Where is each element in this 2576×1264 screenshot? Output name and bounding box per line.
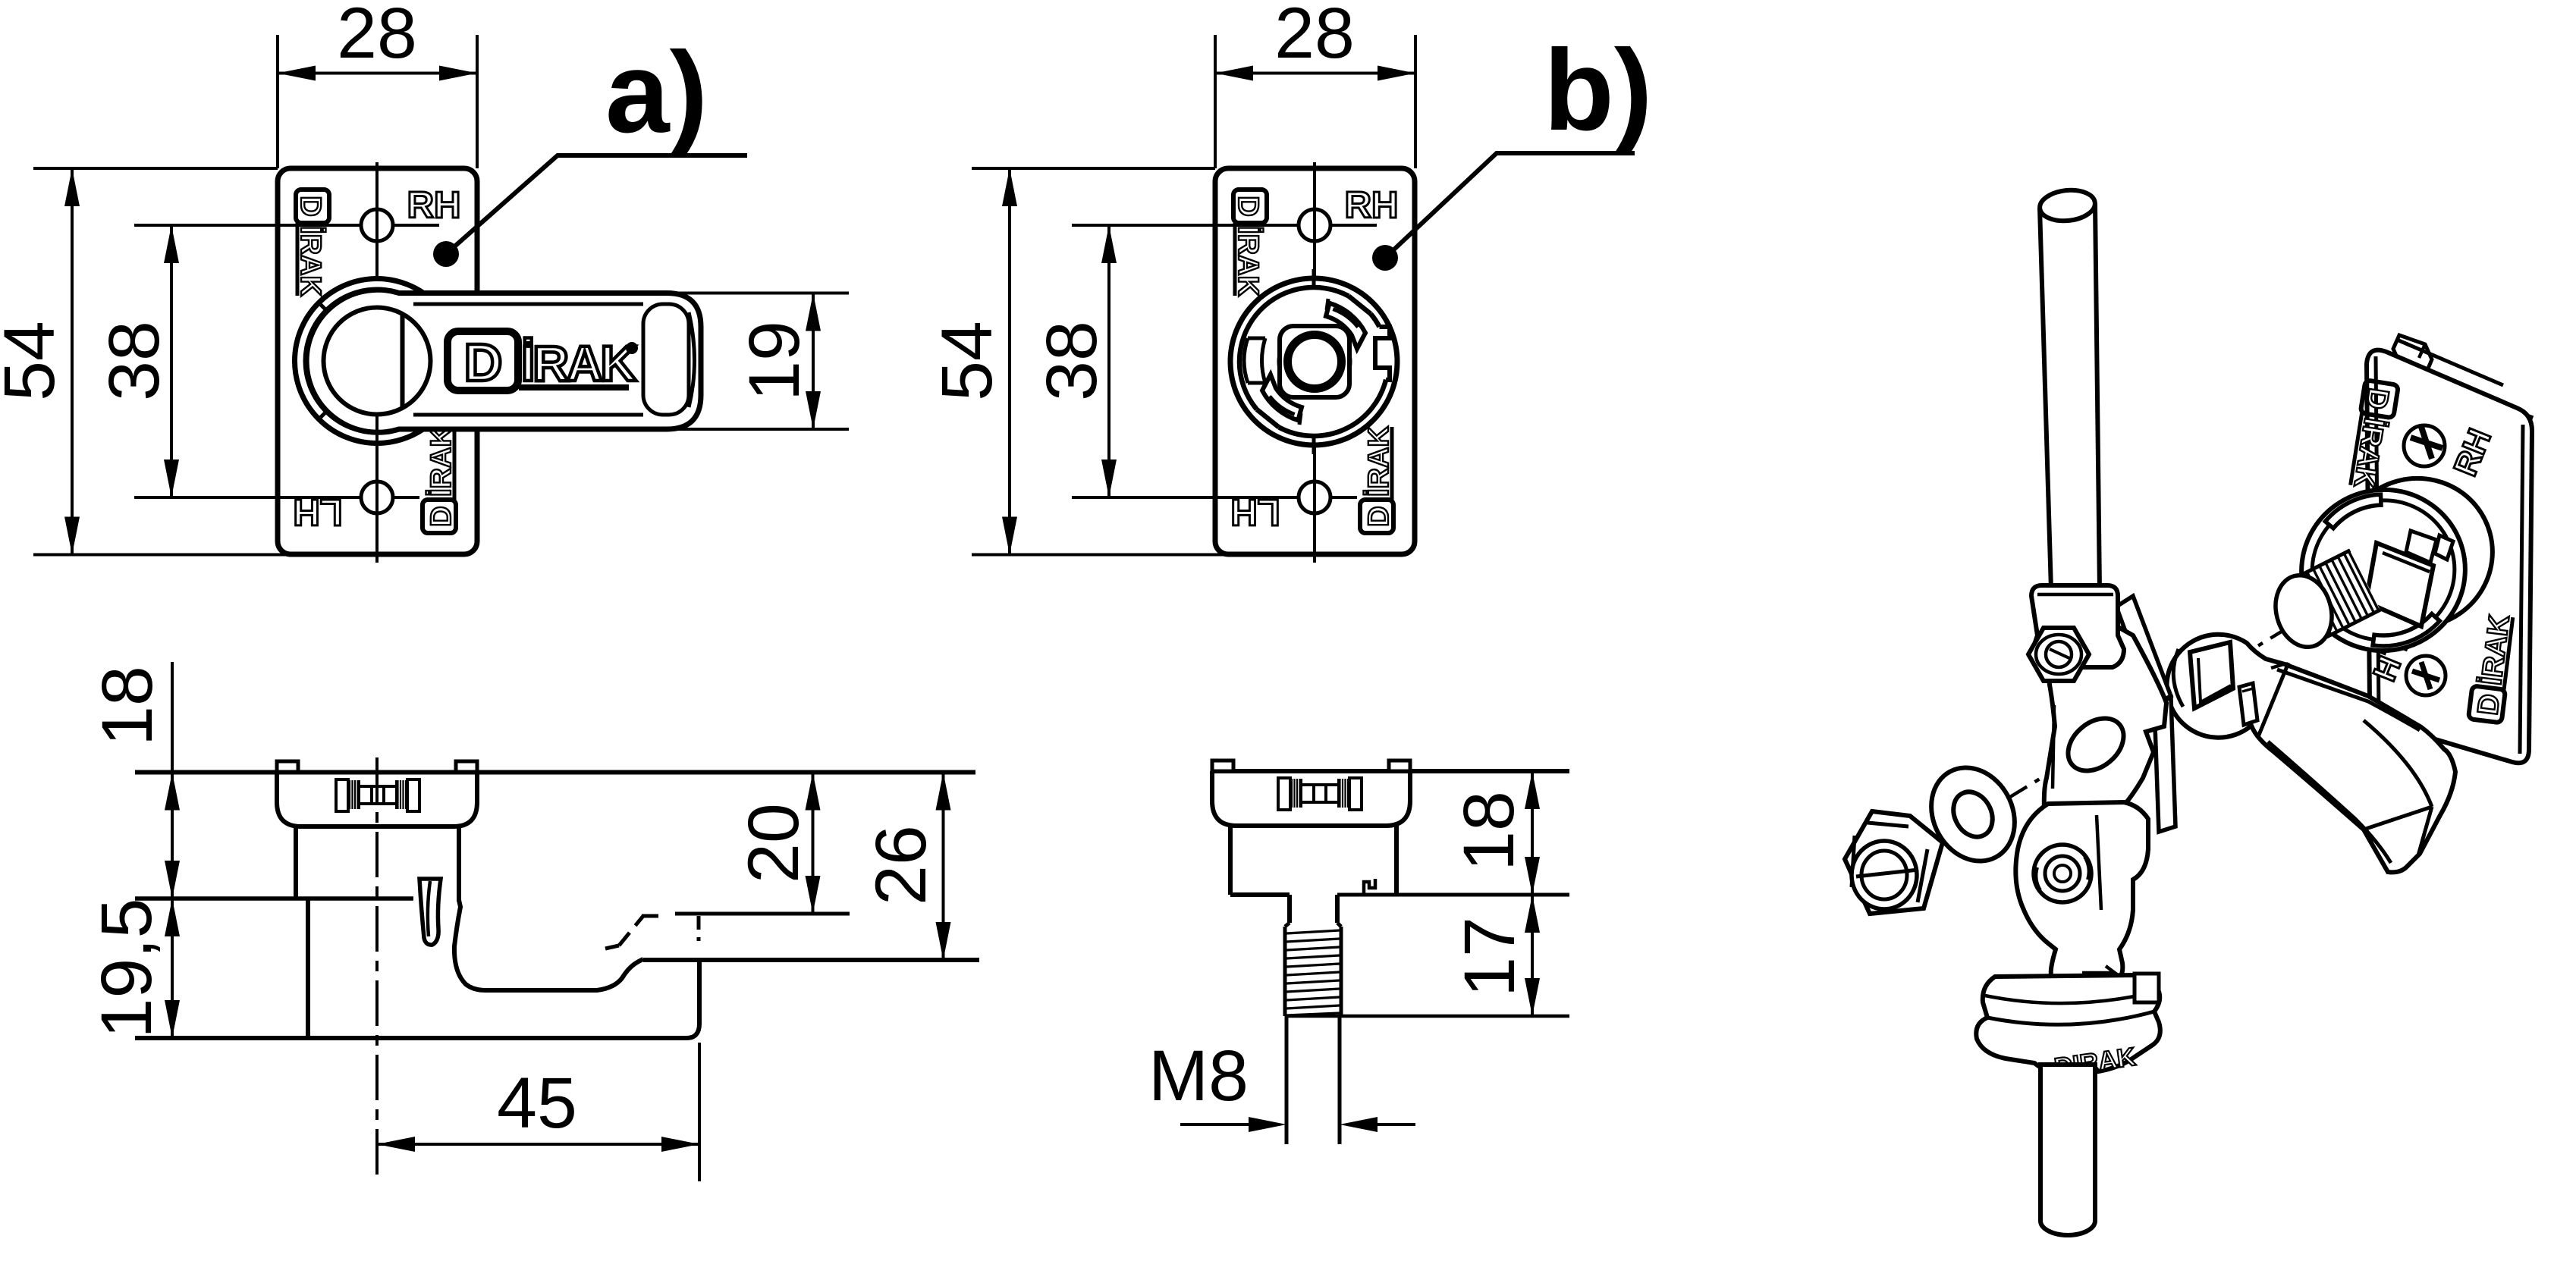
svg-text:D: D [464, 333, 503, 392]
svg-text:45: 45 [497, 1063, 577, 1143]
svg-text:28: 28 [337, 0, 417, 74]
svg-text:28: 28 [1274, 0, 1355, 74]
svg-text:17: 17 [1450, 917, 1530, 997]
svg-text:26: 26 [861, 825, 941, 905]
svg-text:19,5: 19,5 [86, 899, 167, 1039]
svg-text:18: 18 [1449, 791, 1529, 871]
svg-text:İRAK: İRAK [521, 335, 637, 391]
svg-text:b): b) [1544, 26, 1652, 155]
svg-text:38: 38 [94, 321, 174, 401]
svg-text:18: 18 [87, 666, 168, 746]
svg-text:M8: M8 [1148, 1036, 1249, 1116]
svg-text:19: 19 [734, 321, 815, 401]
svg-text:54: 54 [927, 321, 1007, 401]
svg-text:20: 20 [734, 803, 814, 883]
svg-text:a): a) [605, 28, 708, 157]
svg-text:38: 38 [1032, 321, 1112, 401]
svg-text:54: 54 [0, 321, 70, 401]
